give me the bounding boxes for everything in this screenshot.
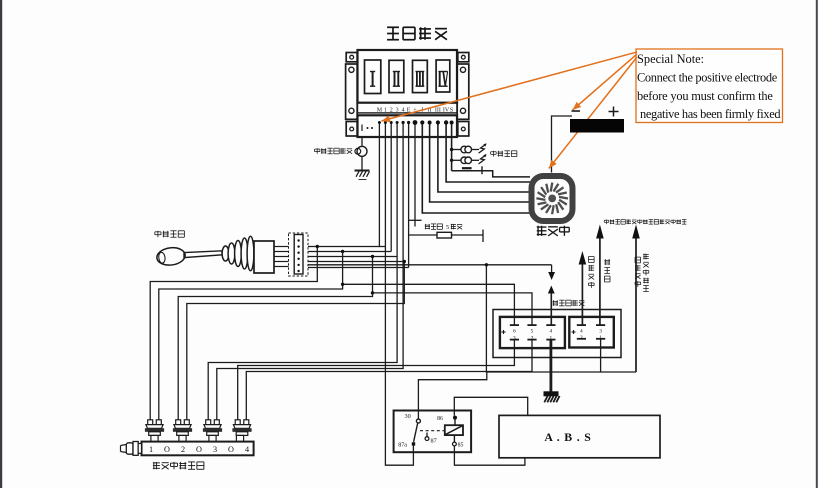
svg-text:2: 2 <box>181 445 185 454</box>
svg-text:before you must confirm the: before you must confirm the <box>637 89 773 103</box>
svg-text:Connect the positive electrode: Connect the positive electrode <box>637 71 778 85</box>
svg-text:O: O <box>196 445 202 454</box>
svg-text:2: 2 <box>580 335 583 341</box>
svg-text:E: E <box>407 107 411 113</box>
svg-text:30: 30 <box>405 413 411 420</box>
svg-text:4: 4 <box>550 329 553 335</box>
svg-text:A . B . S: A . B . S <box>544 430 591 444</box>
svg-text:1: 1 <box>149 445 153 454</box>
svg-text:4: 4 <box>580 329 583 335</box>
svg-text:IV: IV <box>443 107 450 113</box>
svg-text:O: O <box>164 445 170 454</box>
svg-text:3: 3 <box>599 329 602 335</box>
svg-text:2: 2 <box>531 335 534 341</box>
svg-text:S: S <box>450 107 453 113</box>
svg-text:5: 5 <box>446 224 449 231</box>
svg-text:O: O <box>228 445 234 454</box>
svg-text:1: 1 <box>384 107 387 113</box>
svg-text:86: 86 <box>437 416 443 422</box>
svg-text:Special Note:: Special Note: <box>637 52 704 66</box>
svg-text:3: 3 <box>396 107 399 113</box>
svg-text:2: 2 <box>390 107 393 113</box>
svg-text:negative has been firmly fixed: negative has been firmly fixed <box>640 107 781 121</box>
svg-text:4: 4 <box>402 107 405 113</box>
svg-text:3: 3 <box>213 445 217 454</box>
svg-text:3: 3 <box>513 335 516 341</box>
svg-text:5: 5 <box>531 329 534 335</box>
svg-text:85: 85 <box>458 442 464 448</box>
svg-text:87: 87 <box>431 438 437 445</box>
svg-text:87a: 87a <box>398 443 407 449</box>
svg-text:1: 1 <box>599 335 602 341</box>
svg-text:III: III <box>435 107 441 113</box>
svg-text:M: M <box>377 107 383 113</box>
svg-text:4: 4 <box>245 445 249 454</box>
svg-text:6: 6 <box>513 329 516 335</box>
